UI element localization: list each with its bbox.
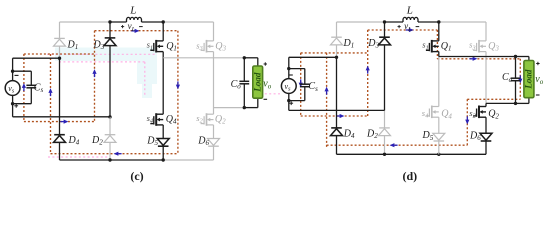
wire Q1 drain lead bbox=[162, 22, 164, 41]
polarity minus of vs (d) bbox=[289, 74, 293, 76]
node bottom rail / D5 branch bbox=[162, 158, 165, 161]
transistor Q3 (d) (off) bbox=[473, 40, 486, 53]
node vs bottom / D3-D2 bbox=[108, 115, 111, 118]
wire leg midpoint to output top (inactive) bbox=[163, 57, 244, 59]
wire Q1 source to Q4 drain bbox=[162, 52, 164, 115]
polarity plus of vL bbox=[121, 25, 124, 28]
wire bottom rail (d) bbox=[337, 153, 487, 155]
capacitor Cs bbox=[26, 85, 36, 88]
node vs top / D1-D4 (d) bbox=[335, 56, 338, 59]
wire output bottom to load bbox=[244, 107, 257, 109]
wire vs upper lead (d) bbox=[288, 57, 290, 79]
current arrow left bottom return (d) bbox=[390, 143, 398, 147]
node Cs top tap bbox=[11, 70, 14, 73]
wire output bottom to load (d) bbox=[516, 102, 529, 104]
wire Q1 source to output node (d) bbox=[438, 52, 440, 57]
wire Cs upper lead bbox=[30, 71, 32, 85]
wire Q3 source to Q2 drain (inactive) bbox=[213, 52, 215, 115]
red dash vertical at Q1 leg bbox=[177, 31, 179, 154]
wire D2 anode lead (d) inactive bbox=[384, 136, 386, 155]
wire D1 cathode lead (d) bbox=[336, 22, 338, 37]
current arrow up at vs bbox=[22, 83, 26, 91]
polarity minus of vL bbox=[139, 26, 143, 28]
wire D4 anode lead bbox=[59, 142, 61, 160]
wire D1 anode lead bbox=[59, 46, 61, 58]
node output top / Co bbox=[243, 56, 246, 59]
node bottom rail / D2 branch bbox=[108, 158, 111, 161]
wire D2 anode lead (inactive) bbox=[109, 142, 111, 160]
wire leg midpoint to output bottom (inactive) bbox=[214, 107, 245, 109]
node Cs bottom tap bbox=[11, 102, 14, 105]
wire D3 anode branch (d) bbox=[384, 45, 386, 111]
wire D2 cathode lead (inactive) bbox=[109, 117, 111, 135]
wire top rail right (d) inactive bbox=[439, 21, 486, 23]
node top rail / D3 branch bbox=[108, 20, 111, 23]
wire Q3 drain lead (d) inactive bbox=[485, 22, 487, 41]
wire D6 cathode lead (inactive) bbox=[213, 146, 215, 160]
polarity plus of vo bbox=[264, 62, 267, 65]
svg-text:Load: Load bbox=[524, 69, 534, 89]
node output bottom / Co bbox=[243, 106, 246, 109]
transistor Q3 (off) bbox=[201, 40, 214, 53]
wire top rail left (inactive) bbox=[60, 21, 111, 23]
red dash vertical at Co (d) bbox=[519, 59, 521, 100]
wire vs upper lead bbox=[12, 58, 14, 80]
diode D4 (conducting) bbox=[54, 135, 66, 143]
faded pink dashed path upper bbox=[47, 53, 157, 55]
wire D2 cathode lead (d) inactive bbox=[384, 110, 386, 128]
wire top rail left (d) inactive bbox=[337, 21, 385, 23]
diode D3 (conducting) bbox=[104, 38, 116, 46]
node output bottom / Co (d) bbox=[514, 102, 517, 105]
wire Q4 source to D5 bbox=[162, 125, 164, 139]
current arrow down at Cs (d) bbox=[299, 79, 303, 87]
wire Cs lower lead bbox=[30, 88, 32, 104]
wire Cs lower lead (d) bbox=[304, 87, 306, 101]
transistor Q2 (off) bbox=[201, 113, 214, 126]
load block (d) bbox=[524, 61, 534, 98]
wire Q2 drain lead (d) bbox=[485, 103, 487, 106]
wire D1 cathode lead bbox=[59, 22, 61, 38]
wire Q2 source to D6 (inactive) bbox=[213, 125, 215, 139]
wire D4 anode lead (d) bbox=[336, 136, 338, 155]
inductor L (d) bbox=[403, 17, 418, 22]
polarity minus of vL (d) bbox=[416, 26, 420, 28]
voltage source vs (d) bbox=[281, 79, 296, 94]
faded pink dashed path bottom bbox=[48, 156, 110, 158]
current arrow right under L (d) bbox=[406, 28, 414, 32]
svg-text:L: L bbox=[406, 5, 413, 17]
red dash bottom return (d) bbox=[327, 144, 468, 146]
red dash mid horizontal (d) bbox=[301, 115, 368, 117]
red dash horizontal under L bbox=[95, 30, 178, 32]
polarity plus of vo (d) bbox=[536, 62, 539, 65]
wire Q2 source to D6 (d) bbox=[485, 117, 487, 133]
diode D5 (conducting) bbox=[157, 139, 169, 147]
red dash top horizontal left bbox=[24, 53, 95, 55]
red dash vertical right of Cs bbox=[50, 54, 52, 154]
red dash to output (d) bbox=[437, 58, 520, 60]
wire D4 cathode branch (d) bbox=[336, 57, 338, 128]
current arrow right under L bbox=[131, 29, 139, 33]
wire D5 cathode lead bbox=[162, 146, 164, 160]
wire D5 cathode lead (d) inactive bbox=[438, 141, 440, 154]
wire D4 cathode branch bbox=[59, 58, 61, 135]
wire output top (d) bbox=[439, 56, 516, 58]
polarity minus of vo (d) bbox=[536, 94, 540, 96]
wire Cs upper lead (d) bbox=[304, 69, 306, 85]
capacitor Co (d) bbox=[511, 78, 521, 81]
capacitor Co bbox=[239, 81, 249, 84]
red dash vertical at Q2 (d) bbox=[466, 99, 468, 145]
red dash vertical right of Cs (d) bbox=[326, 53, 328, 148]
wire midpoint to Q4 (d) inactive bbox=[438, 57, 440, 107]
wire Q3 drain lead (inactive) bbox=[213, 22, 215, 41]
wire load top lead bbox=[257, 58, 259, 66]
node top rail / D3 branch (d) bbox=[383, 20, 386, 23]
diode D1 (d) (inactive) bbox=[331, 37, 343, 45]
diode D1 (inactive) bbox=[54, 38, 66, 46]
red dash mid horizontal bbox=[24, 121, 95, 123]
wire vs lower lead (d) bbox=[288, 93, 290, 110]
wire output bottom (d) bbox=[486, 102, 516, 104]
red dash vertical at D3 bbox=[94, 31, 96, 122]
polarity plus of vs bbox=[14, 104, 18, 108]
polarity minus of vo bbox=[264, 98, 268, 100]
red dash top horizontal left (d) bbox=[301, 52, 368, 54]
node bottom rail / D2 branch (d) bbox=[383, 153, 386, 156]
red dash output bottom (d) bbox=[467, 98, 520, 100]
capacitor Cs (d) bbox=[300, 84, 310, 87]
wire output top to load (d) bbox=[516, 56, 529, 58]
wire Cs top stub (d) bbox=[289, 68, 305, 70]
wire load bottom lead bbox=[257, 98, 259, 107]
wire load top lead (d) bbox=[528, 57, 530, 61]
wire bottom rail (conducting) bbox=[60, 159, 164, 161]
wire inductor to Q1 (d) bbox=[418, 21, 439, 23]
node top rail / Q1 leg (d) bbox=[437, 20, 440, 23]
node output top / Co (d) bbox=[514, 55, 517, 58]
wire D3 cathode lead (d) bbox=[384, 22, 386, 37]
current arrow right on mid path bbox=[60, 120, 68, 124]
wire source bottom to D3-D2 node bbox=[13, 116, 110, 118]
current arrow down at Co (d) bbox=[518, 75, 522, 83]
polarity minus of vs bbox=[15, 74, 19, 76]
wire vs lower lead bbox=[12, 95, 14, 116]
red dash vertical at D3 (d) bbox=[367, 30, 369, 116]
node bottom rail / D5 branch (d) bbox=[437, 153, 440, 156]
current arrow up at D4 path bbox=[48, 88, 52, 96]
wire source bottom to D3-D2 node (d) bbox=[289, 109, 385, 111]
current arrow up at D4 path (d) bbox=[325, 87, 329, 95]
wire source top (d) bbox=[289, 56, 337, 58]
transistor Q1 (d) (on) bbox=[426, 40, 439, 53]
wire Cs bottom stub bbox=[13, 103, 32, 105]
current arrow right mid (d) bbox=[336, 114, 344, 118]
svg-text:L: L bbox=[129, 5, 136, 17]
diode D2 (d) (inactive) bbox=[379, 128, 391, 136]
wire Cs bottom stub (d) bbox=[289, 100, 305, 102]
wire Q4 source to D5 (d) inactive bbox=[438, 117, 440, 133]
wire output top to load bbox=[244, 57, 257, 59]
wire source top bbox=[13, 57, 60, 59]
diode D2 (inactive) bbox=[104, 135, 116, 143]
red dash vertical at Q1 (d) bbox=[436, 30, 438, 59]
wire Co upper lead (d) bbox=[515, 57, 517, 79]
current arrow right to load (d) bbox=[469, 57, 477, 61]
polarity plus of vL (d) bbox=[398, 25, 401, 28]
current arrow left on bottom return bbox=[114, 152, 122, 156]
wire Q3 source to output bottom (d) inactive bbox=[485, 52, 487, 104]
wire top rail to inductor (d) bbox=[385, 21, 404, 23]
faded pink dashed path at load bbox=[256, 93, 281, 95]
wire Q1 drain lead (d) bbox=[438, 22, 440, 41]
diode D6 (inactive) bbox=[208, 139, 220, 147]
inductor L bbox=[127, 17, 142, 22]
wire D6 cathode lead (d) bbox=[485, 141, 487, 154]
wire Co lower lead bbox=[243, 84, 245, 108]
wire top rail to inductor bbox=[110, 21, 127, 23]
red dash horizontal under L (d) bbox=[368, 29, 438, 31]
wire Co lower lead (d) bbox=[515, 81, 517, 104]
svg-text:(d): (d) bbox=[402, 169, 417, 183]
red dash bottom return bbox=[51, 153, 178, 155]
wire Co upper lead bbox=[243, 58, 245, 81]
polarity plus of vs (d) bbox=[289, 101, 293, 105]
diode D5 (d) (inactive) bbox=[433, 133, 445, 141]
load block bbox=[252, 66, 262, 98]
diode D4 (d) (conducting) bbox=[331, 128, 343, 136]
voltage source vs bbox=[5, 81, 20, 96]
wire load bottom lead (d) bbox=[528, 98, 530, 104]
node vs top / D1-D4 bbox=[58, 57, 61, 60]
node Cs top tap (d) bbox=[287, 67, 290, 70]
current arrow down at Q1 leg bbox=[176, 81, 180, 89]
wire bottom rail right (inactive) bbox=[163, 159, 213, 161]
faded pink dashed path lower bbox=[59, 61, 145, 63]
transistor Q2 (d) (on) bbox=[473, 106, 486, 119]
svg-text:Load: Load bbox=[252, 72, 262, 92]
transistor Q4 (d) (off) bbox=[426, 106, 439, 119]
wire inductor to Q1 leg bbox=[142, 21, 164, 23]
svg-text:(c): (c) bbox=[130, 169, 143, 183]
diode D6 (d) (conducting) bbox=[480, 133, 492, 141]
node Cs bottom tap (d) bbox=[287, 99, 290, 102]
wire D3 cathode lead bbox=[109, 22, 111, 38]
faded previous current path (cyan highlight) bbox=[55, 48, 157, 62]
transistor Q4 (on) bbox=[150, 113, 163, 126]
current arrow up at D3 path bbox=[92, 69, 96, 77]
wire D3 anode branch bbox=[109, 46, 111, 117]
transistor Q1 (on) bbox=[150, 40, 163, 53]
current arrow down at Q2 (d) bbox=[465, 116, 469, 124]
red dash vertical through Cs (d) bbox=[300, 53, 302, 116]
red dash vertical through source bbox=[23, 54, 25, 122]
wire top rail right (inactive) bbox=[163, 21, 213, 23]
diode D3 (d) (conducting) bbox=[379, 37, 391, 45]
current arrow up at D3 (d) bbox=[366, 66, 370, 74]
faded pink dashed path vertical bbox=[144, 62, 146, 96]
wire D1 anode lead (d) bbox=[336, 45, 338, 57]
node top rail / Q1 leg bbox=[162, 20, 165, 23]
wire Cs top stub bbox=[13, 70, 32, 72]
